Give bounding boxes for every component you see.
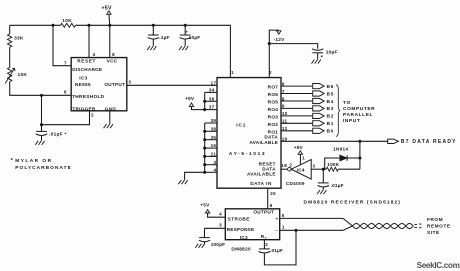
resistor 33K [8,34,12,47]
wire RO row pin 8 [281,100,312,102]
node ground bus [203,171,206,174]
svg-text:8: 8 [112,52,115,57]
node data-available / reset RC [358,140,361,143]
wire receiver plus input [280,217,343,219]
svg-text:TO: TO [343,100,351,106]
svg-text:RESPONSE: RESPONSE [227,227,255,232]
svg-text:10µF: 10µF [189,35,201,41]
svg-text:16: 16 [211,143,217,148]
svg-text:MYLAR OR: MYLAR OR [15,158,52,164]
node rail/discharge [51,24,54,27]
svg-text:DATA: DATA [262,166,276,171]
svg-text:6: 6 [270,203,273,208]
svg-text:1N914: 1N914 [333,147,348,152]
wire pin 4 stub [205,171,217,173]
wire down to 100pF [204,228,206,237]
wire pin 34 stub [205,91,217,93]
svg-text:100pF: 100pF [211,242,226,247]
node trigger/C3 [40,123,43,126]
svg-text:−: − [276,228,279,233]
node threshold / C3 junction [40,94,43,97]
wire response pin 3 [205,227,226,229]
svg-text:37: 37 [209,105,215,110]
node rail/C2 [184,24,187,27]
svg-text:10: 10 [282,111,288,116]
twisted pair to remote site [343,218,353,226]
node bus/36 [203,100,206,103]
wire Vcc pin 8 [109,25,111,57]
ground below C5 [179,46,188,50]
wire diode branch left [325,158,340,169]
buffer arrow B1 [313,121,324,126]
wire inverter input [311,168,323,170]
buffer arrow B4 [313,98,324,103]
wire -12V rail to C6 [269,44,317,49]
svg-text:OUTPUT: OUTPUT [104,82,125,87]
svg-text:36: 36 [209,96,215,101]
svg-text:CD4009: CD4009 [286,181,305,186]
node bus/37 [203,108,206,111]
wire receiver minus line [280,229,343,231]
svg-text:7: 7 [64,60,67,65]
svg-text:+5V: +5V [101,5,112,11]
svg-text:19: 19 [282,136,288,141]
svg-text:SITE: SITE [427,230,440,236]
svg-text:5: 5 [282,213,285,218]
wire pin 38 stub [205,130,217,132]
output arrow B7 [388,139,399,143]
wire pin 39 stub [205,122,217,124]
svg-text:RO4: RO4 [268,107,279,112]
wire pin 16 stub [205,147,217,149]
svg-text:B0: B0 [327,129,335,134]
wire pin 21 stub [205,155,217,157]
svg-text:B4: B4 [327,99,335,104]
svg-text:+5V: +5V [200,203,210,209]
svg-text:6: 6 [282,81,285,86]
ground below C3 [35,141,44,145]
svg-text:OUTPUT: OUTPUT [253,209,274,214]
wire IC1 pin 2 to -12V [269,30,279,78]
svg-text:+5V: +5V [185,96,195,102]
svg-text:GND: GND [105,106,117,111]
ground below 100pF [195,244,204,248]
svg-text:3: 3 [219,222,222,227]
power +5V terminal [107,11,111,14]
resistor 10K (timing, top rail) [61,23,76,27]
wire pin 37 stub [205,109,217,111]
svg-text:18: 18 [281,163,287,168]
capacitor C4 .1uF [152,25,154,35]
potentiometer 10K [8,68,12,82]
buffer arrow B3 [313,106,324,111]
svg-text:12: 12 [282,126,288,131]
svg-text:34: 34 [209,88,215,93]
wire left branch down to 33K [9,25,11,34]
svg-text:9: 9 [282,104,285,109]
wire cap branch down [322,169,324,183]
svg-text:AVAILABLE: AVAILABLE [247,172,276,177]
svg-text:NE555: NE555 [75,82,91,87]
svg-text:THRESHOLD: THRESHOLD [72,94,105,99]
svg-text:4: 4 [92,52,95,57]
buffer arrow B2 [313,113,324,118]
svg-text:DM8820: DM8820 [231,246,251,251]
svg-text:2: 2 [265,242,268,247]
svg-text:6: 6 [64,89,67,94]
svg-text:20: 20 [270,191,276,196]
node rail/reset [87,24,90,27]
ground below 555 [104,124,113,128]
svg-text:10K: 10K [62,18,72,24]
svg-text:TRIGGER: TRIGGER [72,106,95,111]
svg-text:1: 1 [231,70,234,75]
svg-text:RO6: RO6 [268,92,279,97]
svg-text:21: 21 [211,152,217,157]
svg-text:.01µF: .01µF [331,183,344,188]
svg-text:4: 4 [219,212,222,217]
svg-text:39: 39 [211,118,217,123]
wire IC1 pin 18 to inverter output [281,168,288,170]
svg-text:.01µF: .01µF [270,248,283,253]
svg-text:PARALLEL: PARALLEL [343,112,373,118]
wire RO row pin 12 [281,130,312,132]
svg-text:DM8820 RECEIVER (SND5182): DM8820 RECEIVER (SND5182) [304,199,402,205]
timer IC3 NE555 body [71,58,127,111]
brace to computer bus [336,85,340,137]
power -12V terminal [277,31,281,34]
wire dashed continuation [414,223,421,225]
wire 555 GND pin to ground [109,111,111,124]
wire RO row pin 6 [281,85,312,87]
svg-text:38: 38 [211,126,217,131]
node ground bus [203,147,206,150]
capacitor C3 .01uF mylar [36,130,47,132]
svg-text:DISCHARGE: DISCHARGE [72,67,102,72]
svg-text:B2: B2 [327,114,335,119]
ground below C4 [147,46,156,50]
svg-text:B6: B6 [327,84,335,89]
svg-text:+: + [186,30,189,35]
node rail/+5V/Vcc [108,24,111,27]
wire DATA AVAILABLE pin 19 to B7 [281,140,388,142]
wire +5V rail left segment [10,24,61,26]
svg-text:STROBE: STROBE [228,217,250,222]
wire IC1 pin 20 DATA IN to IC2 pin 6 [267,188,269,209]
inverter IC4 CD4009 [288,167,292,171]
node inverter input / RC [322,168,325,171]
wire ground bus for unused pins [204,123,206,172]
wire down to C3 [41,95,43,131]
svg-text:DATA IN: DATA IN [250,181,272,186]
svg-text:B1: B1 [327,121,335,126]
wire pin 3 stub [205,164,217,166]
wire RT pin 2 down [263,240,265,249]
svg-text:RO2: RO2 [268,122,279,127]
wire right branch to data available [359,141,361,169]
svg-text:3: 3 [213,160,216,165]
resistor 100K [326,167,338,171]
wire trigger pin 2 to C3 top [42,111,90,125]
wire reset pin 4 [88,25,90,57]
svg-text:7: 7 [282,89,285,94]
node receiver minus input [294,229,297,232]
ground below C6 [312,60,321,64]
line receiver IC2 DM8820 body [225,209,279,240]
svg-text:+5V: +5V [294,145,304,151]
node -12V / C6 [268,42,271,45]
wire pot to threshold row [10,82,71,96]
node ground bus [203,155,206,158]
ground for unused pins [178,180,187,184]
svg-text:.01µF *: .01µF * [49,131,67,137]
svg-text:1: 1 [282,225,285,230]
svg-text:IC3: IC3 [79,75,87,80]
svg-text:10K: 10K [18,72,28,78]
svg-text:AY-5-1013: AY-5-1013 [229,151,266,157]
svg-text:SeekIC.com: SeekIC.com [417,261,460,270]
capacitor .01uF reset [318,182,329,184]
wire 33K to pot [9,47,11,67]
wire +5V bus for pins 34/36/37 [204,92,206,109]
wire pin 35 stub [205,139,217,141]
svg-text:B3: B3 [327,106,335,111]
svg-text:2: 2 [289,162,292,167]
node ground bus [203,130,206,133]
svg-text:POLYCARBONATE: POLYCARBONATE [15,165,72,171]
UART IC1 AY-5-1013 body [217,78,281,189]
svg-text:33K: 33K [14,36,24,42]
diode D1 1N914 [340,155,347,161]
capacitor .01uF RT [259,248,270,250]
capacitor C5 10uF polarized [184,25,186,35]
svg-text:11: 11 [282,119,288,124]
svg-text:100K: 100K [327,162,339,167]
svg-text:B5: B5 [327,91,335,96]
svg-text:COMPUTER: COMPUTER [343,106,375,112]
svg-text:B7 DATA READY: B7 DATA READY [401,139,457,145]
svg-text:35: 35 [211,135,217,140]
svg-text:8: 8 [282,96,285,101]
svg-text:1: 1 [302,156,305,161]
wire +5V rail right segment to IC1 pin 1 [76,25,231,77]
svg-text:FROM: FROM [427,217,443,223]
wire RO row pin 11 [281,122,312,124]
capacitor C6 10uF on -12V [312,49,323,51]
svg-text:RO3: RO3 [268,115,279,120]
capacitor 100pF [199,237,210,239]
svg-text:IC1: IC1 [236,123,246,129]
svg-text:INPUT: INPUT [343,118,360,124]
svg-text:IC2: IC2 [240,235,248,240]
svg-text:RO7: RO7 [268,85,279,90]
svg-text:REMOTE: REMOTE [427,224,451,230]
wire discharge pin 7 [53,25,71,65]
node ground bus [203,163,206,166]
svg-text:17: 17 [211,80,217,85]
wire 555 output pin 3 to IC1 pin 17 [127,84,217,86]
wire RO row pin 7 [281,93,312,95]
svg-text:.1µF: .1µF [159,35,170,41]
svg-text:3: 3 [128,79,131,84]
buffer arrow B5 [313,91,324,96]
svg-text:+: + [276,216,279,221]
svg-text:RO5: RO5 [268,100,279,105]
svg-text:AVAILABLE: AVAILABLE [249,140,278,145]
wire RO row pin 10 [281,115,312,117]
node rail/C1 [152,24,155,27]
wire ground bus to ground [185,172,205,180]
node ground bus [203,138,206,141]
buffer arrow B6 [313,84,324,89]
svg-text:T: T [265,237,268,241]
svg-text:2: 2 [91,113,94,118]
buffer arrow B0 [313,128,324,133]
svg-text:3: 3 [313,164,316,169]
svg-text:-12V: -12V [274,37,286,43]
wire pin 36 stub [205,100,217,102]
wire strobe pin 4 [208,213,226,217]
svg-text:RESET: RESET [77,58,96,63]
svg-text:IC4: IC4 [297,167,305,172]
node diode/100K right [358,156,361,159]
ground below reset cap [317,190,326,194]
wire RO row pin 9 [281,107,312,109]
svg-text:10µF: 10µF [326,50,338,56]
svg-text:4: 4 [213,167,216,172]
svg-text:VCC: VCC [107,58,118,63]
